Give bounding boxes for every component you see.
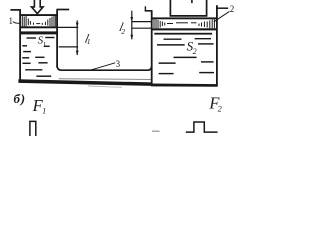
svg-text:1: 1: [9, 16, 14, 26]
svg-text:1: 1: [43, 41, 47, 49]
l2 top arrowhead: [130, 17, 133, 22]
block (weight) on piston 2: [170, 0, 206, 16]
liquid surface line left vessel: [21, 31, 57, 34]
l2 bottom arrowhead: [130, 35, 133, 40]
label l2: [118, 20, 125, 34]
F1 pulse: [30, 121, 36, 136]
l1 vertical arrow line: [76, 20, 78, 55]
svg-text:1: 1: [87, 37, 91, 46]
svg-text:б): б): [14, 91, 26, 106]
liquid dashes left vessel: [22, 38, 54, 77]
piston 2 hatching: [154, 19, 214, 28]
piston 1 top edge: [21, 14, 57, 16]
piston 2 bottom edge: [153, 28, 217, 30]
right vessel left wall: [151, 10, 153, 85]
l1 bottom arrowhead: [76, 51, 79, 56]
l2 vertical arrow line: [131, 11, 133, 40]
liquid dashes right vessel: [157, 39, 214, 74]
l1 top arrowhead: [76, 23, 79, 28]
F2 pulse: [186, 122, 218, 132]
liquid surface line right vessel: [154, 33, 212, 35]
svg-text:1: 1: [42, 107, 46, 116]
svg-text:2: 2: [121, 27, 125, 36]
left vessel left flange: [10, 9, 21, 11]
left vessel left wall: [19, 9, 21, 82]
left vessel + pipe outer bottom: [18, 79, 152, 86]
label l1: [83, 31, 90, 45]
l1 dimension line 1: [57, 26, 78, 28]
leader for label 1: [13, 22, 20, 24]
piston 1 hatching: [22, 16, 55, 26]
right vessel left flange lip: [144, 6, 146, 11]
svg-text:2: 2: [193, 47, 197, 56]
piston 2 top edge: [152, 17, 216, 19]
svg-text:2: 2: [218, 104, 222, 113]
ground shadow line: [88, 86, 122, 87]
leader for label 2: [214, 11, 230, 21]
piston 1 bottom edge: [21, 26, 57, 28]
right vessel right wall: [216, 5, 218, 85]
right vessel bottom: [151, 84, 218, 87]
l1 dimension line 2: [59, 46, 78, 48]
svg-text:2: 2: [230, 4, 235, 14]
l2 dimension line 2: [132, 27, 151, 29]
baseline dash left of F2 pulse: [152, 130, 160, 132]
svg-text:3: 3: [116, 59, 121, 69]
force arrow F1 (hollow down arrow): [32, 0, 44, 14]
tick above block: [191, 0, 193, 3]
leader for label 3: [89, 63, 116, 71]
right vessel left flange: [145, 10, 153, 12]
left vessel right wall: [56, 10, 58, 68]
left vessel right flange: [57, 9, 70, 11]
l2 dimension line 1: [132, 21, 151, 23]
pipe 3 interior bottom line: [59, 78, 152, 81]
right vessel right flange: [217, 7, 228, 9]
pipe 3 top line: [57, 66, 151, 70]
